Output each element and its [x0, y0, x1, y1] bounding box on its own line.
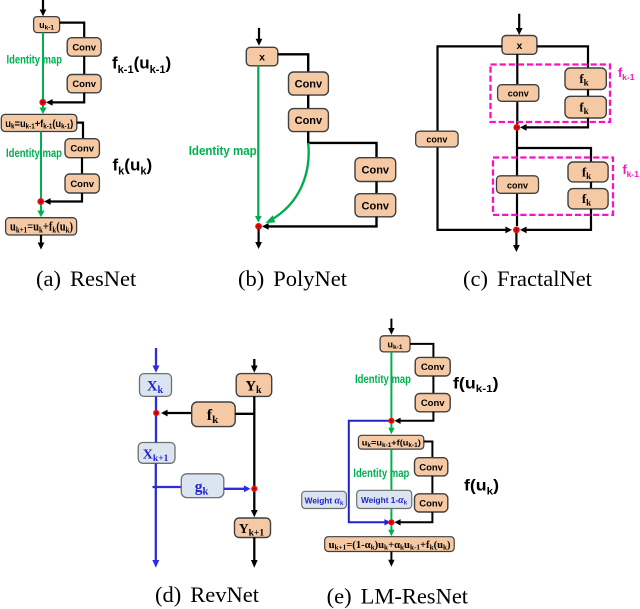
svg-text:conv: conv: [508, 89, 529, 99]
node Y_k+1 box: [235, 518, 271, 539]
svg-text:Conv: Conv: [72, 79, 96, 90]
svg-text:f(uk): f(uk): [464, 478, 499, 498]
wire output arrow panel e: [388, 552, 394, 567]
junction E1 (red sum): [388, 418, 394, 424]
f_k box C1: [565, 68, 606, 90]
wire Conv A4 to junction A2: [44, 193, 82, 205]
f_k box C2: [565, 96, 606, 118]
wire u_k box to Conv E3: [424, 442, 433, 458]
conv box B4: [355, 194, 396, 217]
wire blue feedback (junction E1 left-down-right to junction E2): [349, 421, 389, 523]
wire Y_k+1 output arrow (black): [251, 538, 258, 568]
conv box A1: [67, 38, 101, 57]
svg-text:Conv: Conv: [70, 144, 94, 155]
conv box E2: [415, 394, 450, 412]
svg-text:Conv: Conv: [70, 179, 94, 190]
wire Conv B4 to junction B: [262, 217, 377, 230]
wire Conv B1 to Conv B2: [307, 95, 309, 109]
junction A2 (red sum): [37, 198, 44, 205]
wire Conv E4 to junction E2: [394, 512, 432, 526]
block g_k box: [181, 474, 224, 498]
junction D2 (red sum): [251, 486, 257, 492]
svg-text:Identity map: Identity map: [355, 372, 411, 386]
svg-text:Identity map: Identity map: [189, 143, 257, 158]
node u_k sum box: [1, 114, 77, 131]
conv box B1: [289, 72, 329, 95]
node u_k-1 box: [34, 17, 60, 33]
wire input arrow into x box c: [516, 14, 523, 35]
wire input arrow into u_k-1: [40, 0, 47, 16]
wire Conv B2 to Conv B3: [308, 132, 376, 158]
identity wire A1 (green): [42, 33, 44, 101]
svg-text:fk(uk): fk(uk): [113, 156, 153, 178]
wire X_k+1 down to output (blue): [152, 463, 159, 568]
wire Y_k down to junction D2 (black): [253, 396, 255, 486]
f_k box C4: [568, 189, 608, 209]
conv box B3: [355, 158, 396, 182]
wire left column (x to conv-left to junction C2): [438, 46, 507, 230]
junction E2 (red sum): [388, 519, 394, 525]
junction B (red sum): [255, 223, 262, 230]
svg-text:Conv: Conv: [419, 462, 443, 473]
svg-text:Identity map: Identity map: [7, 52, 63, 66]
svg-text:Conv: Conv: [362, 200, 390, 212]
svg-text:x: x: [259, 52, 265, 64]
svg-text:(b) PolyNet: (b) PolyNet: [238, 266, 348, 291]
svg-text:Weight 1-αk: Weight 1-αk: [361, 495, 408, 507]
svg-text:Conv: Conv: [362, 165, 390, 177]
wire Conv B3 to Conv B4: [375, 182, 377, 194]
svg-text:Conv: Conv: [421, 398, 445, 409]
conv box A2: [67, 75, 101, 93]
junction C2 (red sum): [513, 227, 520, 234]
node u_k sum box (e): [358, 435, 423, 449]
conv box B2: [289, 109, 329, 132]
svg-text:x: x: [516, 40, 522, 52]
arrow into junction C2 from left: [505, 227, 512, 234]
svg-text:fk-1: fk-1: [618, 66, 635, 82]
wire f_k right to Y column: [235, 413, 254, 415]
wire junction A1 to u_k box (green arrow): [39, 105, 46, 114]
node x box: [246, 47, 277, 66]
wire input arrow Y_k (black): [251, 359, 258, 373]
wire output arrow panel b: [255, 230, 262, 250]
wire junction E2 to u_k+1 box (green arrow): [388, 525, 394, 536]
wire input arrow X_k (blue): [153, 348, 160, 373]
svg-text:Conv: Conv: [421, 362, 445, 373]
wire u_k-1 to Conv A1: [60, 23, 85, 38]
identity wire B (green, straight): [255, 66, 262, 223]
wire junction A2 to u_k+1 box (green arrow): [37, 205, 44, 218]
conv box A4: [65, 174, 99, 193]
wire center column 2 (junction C1 through conv to junction C2): [516, 131, 518, 227]
svg-text:f(uk-1): f(uk-1): [453, 375, 499, 395]
svg-text:conv: conv: [426, 135, 447, 145]
svg-text:fk-1: fk-1: [623, 163, 640, 179]
conv box center 1: [498, 85, 539, 102]
wire Conv E3 to Conv E4: [431, 476, 433, 494]
wire f_k C4 to junction C2: [520, 209, 591, 233]
svg-text:(c) FractalNet: (c) FractalNet: [463, 266, 593, 291]
svg-text:(d) RevNet: (d) RevNet: [155, 582, 260, 607]
wire Conv E2 to junction E1: [394, 412, 433, 424]
wire X_k to junction D1 (blue): [155, 396, 157, 411]
wire f_k C3 to f_k C4: [590, 182, 592, 189]
wire g_k to junction D2 (blue arrow): [224, 485, 251, 492]
svg-text:Conv: Conv: [72, 42, 96, 53]
wire input arrow into x box: [256, 28, 263, 46]
node u_k+1 sum box (e): [325, 537, 455, 552]
svg-text:Conv: Conv: [295, 115, 323, 127]
node Y_k box: [236, 374, 272, 397]
identity wire A2 (green): [40, 132, 42, 200]
wire right column top (x to f_k boxes): [537, 46, 588, 68]
wire f_k C1 to f_k C2: [587, 90, 589, 97]
identity wire E1 (green): [390, 352, 392, 418]
wire green curve B (second order branch): [265, 143, 308, 223]
block Weight 1-alpha_k box: [357, 490, 412, 508]
conv box center 2: [497, 176, 539, 194]
wire output arrow panel a: [38, 235, 45, 250]
junction D1 (red sum): [153, 410, 159, 416]
wire branch to g_k (blue): [153, 486, 182, 488]
conv box A3: [65, 139, 99, 158]
wire Conv A2 to junction A1: [46, 93, 84, 106]
svg-text:conv: conv: [507, 180, 528, 190]
wire input arrow into u_k-1 (e): [388, 319, 394, 335]
wire f_k to junction D1 (black arrow): [161, 410, 192, 417]
wire junction D1 to X_k+1 (blue): [155, 416, 157, 443]
wire junction E1 to u_k box (green arrow): [388, 424, 394, 435]
svg-text:Weight αk: Weight αk: [305, 495, 344, 507]
wire junction D2 to Y_k+1 (black arrow): [251, 492, 258, 518]
block Weight alpha_k box: [302, 491, 347, 508]
conv box left column: [416, 131, 458, 147]
dashed block F_k-1 upper (magenta): [491, 65, 611, 123]
wire output arrow panel c: [513, 233, 520, 252]
wire u_k-1 to Conv E1: [410, 344, 433, 358]
svg-text:Identity map: Identity map: [6, 146, 62, 160]
node u_k+1 box: [6, 218, 77, 235]
identity wire E2 (green): [390, 449, 392, 519]
block f_k box: [192, 402, 236, 427]
svg-text:Conv: Conv: [295, 79, 323, 91]
node X_k box: [140, 374, 172, 397]
wire Conv A1 to Conv A2: [83, 56, 85, 74]
svg-text:Conv: Conv: [419, 498, 443, 509]
wire right branch 2 (to second f_k pair): [517, 148, 591, 162]
junction A1 (red sum): [39, 99, 46, 106]
wire f_k C2 to junction C1: [520, 118, 588, 131]
svg-text:(a) ResNet: (a) ResNet: [36, 266, 137, 291]
svg-text:fk-1(uk-1): fk-1(uk-1): [112, 54, 171, 76]
node x box c: [502, 36, 537, 55]
wire u_k box to Conv A3: [77, 123, 83, 139]
svg-text:(e) LM-ResNet: (e) LM-ResNet: [327, 584, 469, 609]
f_k box C3: [568, 162, 608, 182]
conv box E1: [415, 357, 450, 376]
arrow blue into junction E2: [384, 519, 390, 525]
wire Conv E1 to Conv E2: [432, 376, 434, 394]
dashed block F_k-1 lower (magenta): [493, 158, 613, 215]
wire center column (x through conv to junction C1): [516, 54, 518, 124]
node X_k+1 box: [138, 443, 175, 464]
junction C1 (red sum): [513, 124, 520, 131]
conv box E3: [415, 458, 448, 476]
wire x box to Conv B1: [278, 54, 308, 72]
wire Conv A3 to Conv A4: [81, 158, 83, 174]
node u_k-1 box (e): [380, 336, 410, 352]
svg-text:Identity map: Identity map: [353, 466, 409, 480]
conv box E4: [415, 494, 448, 512]
